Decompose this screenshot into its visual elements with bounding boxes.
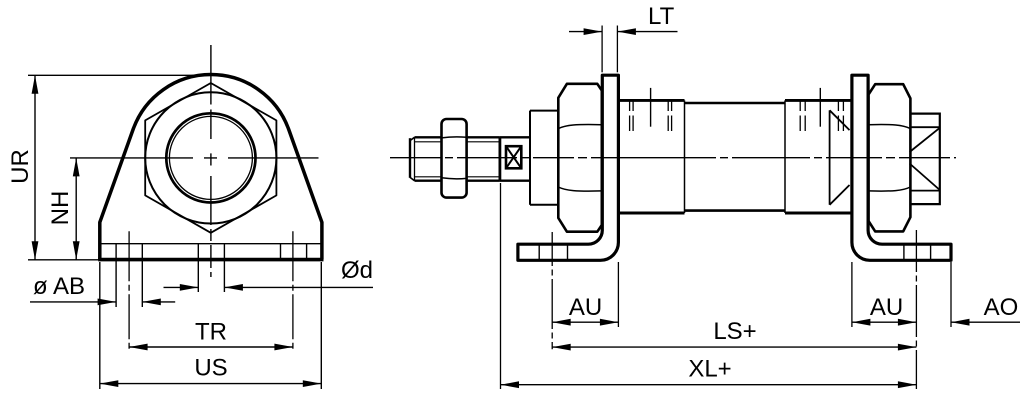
piston rod thread core lines xyxy=(415,142,500,177)
cylinder right end cap xyxy=(785,100,852,213)
horizontal centerline xyxy=(70,157,320,159)
cylinder barrel xyxy=(685,100,786,213)
XL+ left extension line xyxy=(500,183,502,389)
rod section to boss xyxy=(500,137,530,180)
right port centerline xyxy=(819,88,821,127)
dimension AO xyxy=(951,294,1020,326)
UR top extension line xyxy=(28,74,211,76)
vertical centerline xyxy=(210,45,212,277)
left mounting nut xyxy=(558,84,602,232)
rod shoulder xyxy=(498,137,501,180)
svg-text:AU: AU xyxy=(870,294,903,321)
right mounting nut xyxy=(869,84,911,231)
rear threaded boss xyxy=(910,114,940,205)
right hole edge lines xyxy=(281,244,307,259)
rod nut xyxy=(442,119,467,198)
right foot hole edge lines xyxy=(904,244,931,260)
dimension LT xyxy=(569,3,678,35)
svg-text:ø AB: ø AB xyxy=(33,273,85,300)
left hole centerline xyxy=(128,231,130,350)
dimension AU right xyxy=(852,294,917,326)
bore inner circle xyxy=(169,116,252,199)
bracket front outline xyxy=(98,75,323,260)
US left extension line xyxy=(99,262,101,389)
right end chamfer cone xyxy=(830,110,850,205)
svg-text:UR: UR xyxy=(7,149,34,184)
base plate top edge xyxy=(100,243,322,245)
AU left extension line xyxy=(617,262,619,327)
left hole edge lines xyxy=(116,244,142,307)
svg-text:AU: AU xyxy=(569,294,602,321)
dimension US xyxy=(100,355,321,387)
svg-text:Ød: Ød xyxy=(341,257,373,284)
piston rod outline xyxy=(415,137,500,180)
dimension diameter AB xyxy=(30,273,175,305)
nut chamfer circle xyxy=(145,92,276,223)
svg-text:NH: NH xyxy=(47,191,74,226)
piston rod threaded end face xyxy=(410,137,415,180)
dimension TR xyxy=(129,318,293,350)
dimension UR xyxy=(7,75,38,259)
AO extension line xyxy=(950,262,952,327)
dimension LS+ xyxy=(552,318,916,351)
US right extension line xyxy=(320,262,322,389)
dimension diameter d xyxy=(164,257,374,291)
bottom extension line xyxy=(28,259,99,261)
nut hexagon xyxy=(145,83,276,233)
left foot hole centerline xyxy=(551,232,553,349)
bore outer circle xyxy=(166,113,255,202)
svg-text:LT: LT xyxy=(648,3,675,30)
svg-text:AO: AO xyxy=(984,294,1019,321)
dimension NH xyxy=(47,158,80,260)
right port thread lines xyxy=(800,102,843,132)
svg-text:US: US xyxy=(194,355,227,382)
center hole edge lines xyxy=(198,244,224,292)
right foot hole centerline xyxy=(915,230,917,389)
AU right extension line xyxy=(851,262,853,327)
svg-text:LS+: LS+ xyxy=(713,318,756,345)
right bracket L-profile xyxy=(852,75,951,260)
dimension AU left xyxy=(552,294,618,326)
svg-text:XL+: XL+ xyxy=(688,356,731,383)
left thread boss xyxy=(530,111,559,205)
left port centerline xyxy=(650,88,652,127)
svg-text:TR: TR xyxy=(195,318,227,345)
main centerline xyxy=(390,157,956,159)
right hole centerline xyxy=(292,231,294,350)
left bracket L-profile xyxy=(518,75,619,260)
left foot hole edge lines xyxy=(539,244,567,260)
LT extension lines xyxy=(602,26,617,73)
rod wrench flats box xyxy=(506,146,521,168)
left port thread lines xyxy=(630,102,672,132)
cylinder left end cap xyxy=(618,100,684,213)
dimension XL+ xyxy=(501,356,917,389)
